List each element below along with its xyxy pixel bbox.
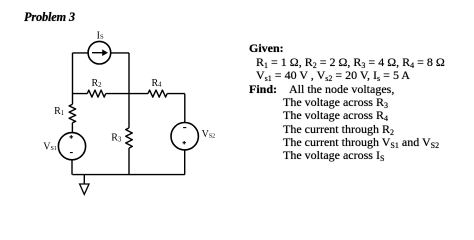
svg-text:R1: R1 — [54, 106, 64, 117]
svg-text:R3: R3 — [111, 133, 122, 144]
svg-text:VS1: VS1 — [43, 141, 57, 152]
svg-text:R4: R4 — [152, 78, 163, 89]
svg-text:IS: IS — [97, 30, 104, 41]
svg-text:R2: R2 — [92, 78, 103, 89]
svg-text:VS2: VS2 — [202, 129, 216, 140]
